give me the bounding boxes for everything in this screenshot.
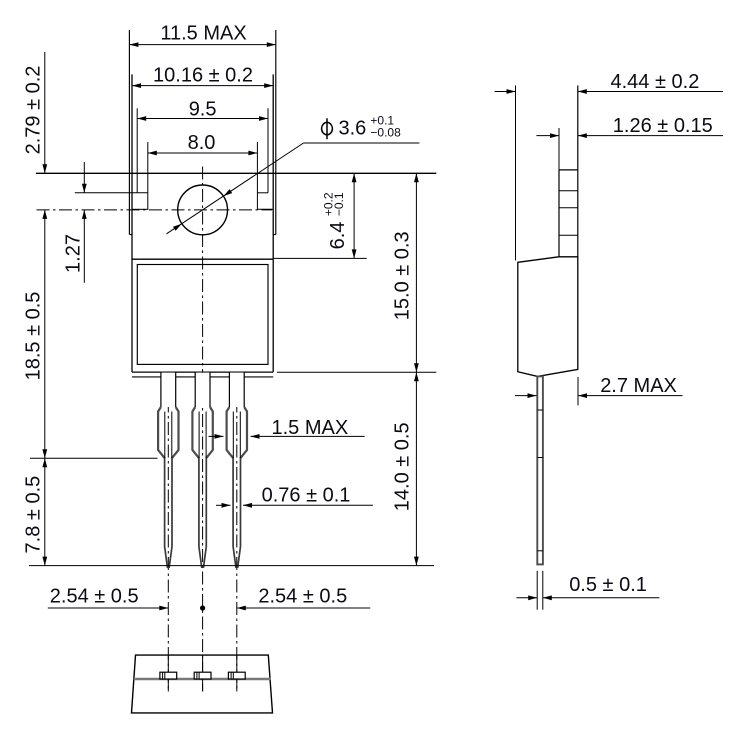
svg-text:4.44 ± 0.2: 4.44 ± 0.2 <box>611 71 700 93</box>
svg-text:3.6: 3.6 <box>339 118 367 140</box>
svg-text:6.4: 6.4 <box>327 222 349 250</box>
svg-text:7.8 ± 0.5: 7.8 ± 0.5 <box>23 476 45 554</box>
svg-text:10.16 ± 0.2: 10.16 ± 0.2 <box>153 65 253 87</box>
svg-text:8.0: 8.0 <box>188 132 216 154</box>
svg-text:0.5 ± 0.1: 0.5 ± 0.1 <box>569 574 647 596</box>
svg-text:18.5 ± 0.5: 18.5 ± 0.5 <box>23 292 45 381</box>
svg-text:9.5: 9.5 <box>189 99 217 121</box>
svg-text:1.27: 1.27 <box>63 234 85 273</box>
svg-text:11.5 MAX: 11.5 MAX <box>160 23 246 45</box>
svg-text:1.26 ± 0.15: 1.26 ± 0.15 <box>613 115 713 137</box>
svg-text:2.79 ± 0.2: 2.79 ± 0.2 <box>23 66 45 155</box>
svg-text:2.7 MAX: 2.7 MAX <box>600 375 677 397</box>
svg-text:0.76 ± 0.1: 0.76 ± 0.1 <box>262 485 351 507</box>
svg-text:−0.1: −0.1 <box>332 192 346 216</box>
svg-text:−0.08: −0.08 <box>370 126 401 140</box>
svg-text:2.54 ± 0.5: 2.54 ± 0.5 <box>258 586 347 608</box>
svg-text:1.5 MAX: 1.5 MAX <box>272 417 349 439</box>
svg-text:2.54 ± 0.5: 2.54 ± 0.5 <box>50 586 139 608</box>
svg-text:14.0 ± 0.5: 14.0 ± 0.5 <box>392 422 414 511</box>
svg-text:15.0 ± 0.3: 15.0 ± 0.3 <box>392 231 414 320</box>
